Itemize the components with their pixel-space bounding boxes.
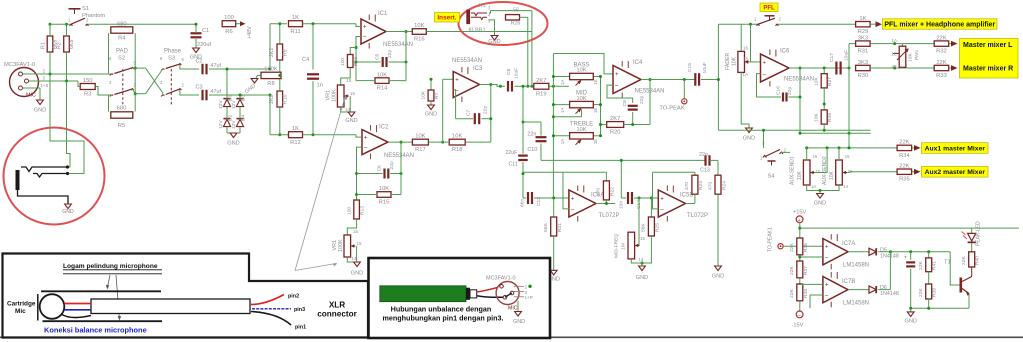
svg-text:2K2: 2K2 [269,48,275,57]
svg-text:100: 100 [347,207,353,215]
svg-text:R1: R1 [41,42,47,49]
svg-text:NE5534AN: NE5534AN [384,153,414,159]
svg-text:R2: R2 [57,42,63,49]
svg-text:14: 14 [345,107,350,112]
svg-text:Phase: Phase [164,49,182,55]
svg-text:TL072P: TL072P [687,213,708,219]
svg-text:C1: C1 [202,28,209,34]
svg-text:66n: 66n [520,199,526,207]
svg-text:Mic: Mic [15,308,26,315]
svg-text:R6: R6 [225,29,232,35]
svg-text:47uf: 47uf [211,63,222,69]
svg-text:+: + [363,25,367,31]
svg-text:MIC: MIC [508,306,518,312]
svg-text:Master mixer L: Master mixer L [963,42,1013,49]
svg-text:1E: 1E [593,108,598,113]
svg-text:–: – [798,313,801,319]
svg-text:1E: 1E [892,52,897,57]
svg-text:IC4: IC4 [633,60,643,66]
svg-text:+: + [660,196,664,202]
svg-text:NE5534AN: NE5534AN [383,42,413,48]
svg-text:+: + [615,72,619,78]
svg-text:15: 15 [640,236,645,241]
svg-text:+15V: +15V [793,210,806,216]
svg-text:470: 470 [684,182,690,190]
svg-text:PAN: PAN [914,50,920,60]
svg-text:R16: R16 [414,37,425,43]
svg-text:680: 680 [117,21,127,27]
svg-text:22K: 22K [789,266,795,275]
svg-text:Aux1 master Mixer: Aux1 master Mixer [925,145,986,152]
svg-text:pin1: pin1 [295,325,306,331]
svg-text:1K: 1K [292,15,299,21]
svg-text:Cartridge: Cartridge [7,301,36,308]
svg-text:TL072P: TL072P [599,213,620,219]
svg-text:10K: 10K [577,127,587,133]
svg-text:MIC: MIC [26,93,36,99]
svg-text:22p: 22p [483,106,489,114]
svg-text:C17: C17 [829,53,835,62]
svg-text:220uf: 220uf [197,42,211,48]
svg-text:10K: 10K [377,72,387,78]
svg-text:R25: R25 [655,223,661,232]
svg-text:NE5534AN: NE5534AN [784,77,814,83]
svg-text:C9: C9 [622,100,628,107]
svg-text:10K: 10K [908,53,914,62]
svg-text:XLR: XLR [329,301,345,310]
svg-text:R37: R37 [803,266,809,275]
svg-text:10K: 10K [379,186,389,192]
svg-text:D2: D2 [228,115,234,121]
svg-text:1E: 1E [593,139,598,144]
svg-text:GND: GND [636,275,648,281]
svg-text:22p: 22p [639,96,645,104]
svg-text:R17: R17 [415,147,426,153]
svg-text:10uF: 10uF [514,68,520,79]
svg-text:R27: R27 [827,77,833,86]
svg-text:C3: C3 [196,85,203,91]
svg-text:R10: R10 [283,94,289,104]
svg-text:R18: R18 [452,147,463,153]
svg-text:PAD: PAD [116,49,129,55]
svg-text:+: + [364,135,368,141]
svg-text:R26: R26 [511,21,521,27]
svg-text:10n: 10n [619,201,625,209]
svg-text:GND: GND [814,201,826,207]
svg-text:pin3: pin3 [294,307,305,313]
svg-text:TO-PEAK1: TO-PEAK1 [768,227,774,252]
svg-text:R22: R22 [610,187,616,196]
svg-text:3K3: 3K3 [858,35,868,41]
svg-text:R32: R32 [936,49,947,55]
svg-text:R8: R8 [267,81,274,87]
svg-text:Koneksi balance microphone: Koneksi balance microphone [44,326,147,335]
svg-text:+: + [763,61,767,67]
svg-text:R3: R3 [84,92,91,98]
svg-text:MC3FAV1-0: MC3FAV1-0 [486,276,516,282]
svg-text:IC3: IC3 [473,66,483,72]
svg-text:Insert.: Insert. [437,15,456,22]
svg-text:14: 14 [843,184,848,189]
svg-text:C4: C4 [302,57,310,63]
svg-text:470: 470 [596,188,602,196]
svg-text:10K: 10K [814,113,820,122]
svg-text:R20: R20 [610,130,621,136]
svg-text:C13: C13 [700,168,710,174]
svg-text:R24: R24 [721,181,727,190]
svg-text:10K: 10K [797,170,803,180]
svg-text:15: 15 [845,154,850,159]
svg-text:Aux2 master Mixer: Aux2 master Mixer [925,169,986,176]
svg-text:R39: R39 [932,288,938,297]
svg-text:R28: R28 [827,113,833,122]
svg-text:+48V: +48V [247,26,253,39]
svg-text:4E: 4E [892,64,897,69]
svg-text:16: 16 [743,46,748,51]
svg-text:R4: R4 [118,35,126,41]
svg-text:R29: R29 [858,29,869,35]
svg-text:KLBR1: KLBR1 [469,28,486,34]
svg-text:56: 56 [513,8,519,14]
svg-text:10K: 10K [415,134,425,140]
svg-text:1A: 1A [892,38,897,43]
svg-text:12V: 12V [218,120,224,129]
svg-text:C15: C15 [687,63,693,72]
svg-text:R35: R35 [899,177,910,183]
svg-text:C10: C10 [527,147,537,153]
svg-text:10K: 10K [829,170,835,180]
svg-text:IC1: IC1 [378,11,388,17]
svg-text:GND: GND [34,108,46,114]
svg-text:100K: 100K [338,239,344,252]
svg-text:LM1458N: LM1458N [843,263,869,269]
svg-text:680: 680 [117,106,127,112]
svg-text:R7: R7 [434,92,440,99]
svg-text:10K: 10K [452,134,462,140]
svg-text:+: + [455,78,459,84]
svg-text:22K: 22K [789,243,795,252]
svg-text:56K: 56K [543,223,549,232]
svg-text:R31: R31 [858,49,869,55]
svg-text:connector: connector [317,310,357,319]
svg-text:R9: R9 [283,49,289,56]
svg-text:D4: D4 [241,115,247,121]
svg-text:1N4148: 1N4148 [880,254,899,260]
svg-text:C6: C6 [377,165,383,172]
svg-text:1A: 1A [811,184,816,189]
svg-text:1N4148: 1N4148 [880,291,899,297]
svg-text:100K: 100K [331,89,337,102]
svg-text:PFL mixer + Headphone amplifie: PFL mixer + Headphone amplifier [884,22,995,29]
svg-text:10K: 10K [577,68,587,74]
svg-text:22p: 22p [787,87,793,95]
svg-text:22p: 22p [387,50,393,58]
svg-text:C5: C5 [375,53,381,60]
svg-text:R13: R13 [353,57,359,66]
svg-text:C7: C7 [466,109,472,116]
svg-text:14: 14 [639,257,644,262]
svg-text:R40: R40 [975,256,981,265]
svg-text:10K: 10K [732,56,738,66]
svg-text:10K: 10K [814,77,820,86]
svg-text:22uF: 22uF [506,150,518,156]
svg-text:+: + [825,245,829,251]
svg-text:R38: R38 [803,289,809,298]
svg-text:S1: S1 [82,6,89,12]
svg-text:IC2: IC2 [379,125,389,131]
svg-text:TO-PEAK: TO-PEAK [659,106,684,112]
svg-text:2K7: 2K7 [610,116,620,122]
svg-text:GND: GND [425,112,437,118]
svg-text:+: + [825,283,829,289]
svg-text:GND: GND [743,136,755,142]
svg-text:100: 100 [224,15,234,21]
svg-text:100K: 100K [264,67,278,73]
svg-text:22K: 22K [899,164,909,170]
svg-text:3: 3 [43,76,46,81]
svg-text:AUX-SEND1: AUX-SEND1 [790,156,796,185]
svg-text:R13: R13 [359,206,365,215]
svg-text:GND: GND [345,118,357,124]
svg-text:IC7B: IC7B [842,279,855,285]
svg-text:1+P: 1+P [525,295,533,300]
svg-text:16: 16 [353,229,358,234]
svg-text:22K: 22K [918,261,924,270]
svg-text:15: 15 [347,78,352,83]
svg-text:pin2: pin2 [288,294,299,300]
svg-text:Hubungan unbalance dengan: Hubungan unbalance dengan [391,305,492,314]
svg-text:1M: 1M [621,243,627,250]
svg-text:+: + [904,256,907,261]
svg-text:C16: C16 [775,86,781,95]
svg-text:GND: GND [62,209,74,215]
svg-text:12V: 12V [218,100,224,109]
svg-text:R5: R5 [118,123,125,129]
svg-text:56K: 56K [641,223,647,232]
svg-text:R41: R41 [932,261,938,270]
svg-text:15: 15 [357,241,362,246]
svg-text:LM1458N: LM1458N [843,301,869,307]
svg-text:1+6: 1+6 [41,83,49,88]
svg-text:2K2: 2K2 [269,95,275,104]
svg-text:Logam pelindung microphone: Logam pelindung microphone [63,263,158,270]
svg-text:R21: R21 [557,223,563,232]
svg-text:10K: 10K [414,23,424,29]
svg-text:22K: 22K [899,140,909,146]
svg-text:22K: 22K [918,288,924,297]
svg-text:3K3: 3K3 [858,60,868,66]
svg-text:GND: GND [488,39,500,45]
svg-text:GND: GND [513,319,525,325]
svg-text:C11: C11 [509,162,518,168]
svg-text:S4: S4 [767,174,775,180]
svg-text:10K: 10K [421,90,427,99]
svg-text:GND: GND [227,141,239,147]
svg-text:R14: R14 [377,86,388,92]
svg-text:D1: D1 [228,95,234,101]
svg-text:GND: GND [351,271,363,277]
svg-text:1A: 1A [743,72,748,77]
svg-text:GND: GND [904,319,916,325]
svg-text:MC3FAV1-0: MC3FAV1-0 [4,62,35,68]
svg-text:10uF: 10uF [702,62,708,73]
svg-text:MID-FREQ: MID-FREQ [614,234,620,258]
svg-text:2: 2 [525,285,528,290]
svg-text:470: 470 [708,182,714,190]
svg-text:PEAK-LED: PEAK-LED [976,221,982,246]
svg-text:16: 16 [813,154,818,159]
svg-text:15: 15 [744,57,749,62]
svg-text:100: 100 [340,58,346,66]
svg-text:1E: 1E [593,80,598,85]
svg-text:22K: 22K [936,60,946,66]
svg-text:C8: C8 [506,68,512,75]
svg-text:1n: 1n [317,83,323,89]
svg-text:R30: R30 [858,73,869,79]
svg-text:10K: 10K [577,96,587,102]
svg-text:C2: C2 [196,59,203,65]
svg-text:15: 15 [816,169,821,174]
svg-text:R34: R34 [899,153,910,159]
svg-text:R12: R12 [290,140,301,146]
svg-text:22K: 22K [936,35,946,41]
svg-text:-15V: -15V [792,323,804,329]
svg-text:22n: 22n [527,132,536,138]
svg-text:FADER: FADER [725,52,731,70]
svg-text:22p: 22p [389,161,395,169]
svg-text:1A: 1A [560,108,565,113]
svg-text:Master mixer R: Master mixer R [963,66,1013,73]
svg-text:6K8: 6K8 [69,40,75,49]
svg-text:1A: 1A [560,80,565,85]
svg-text:+: + [571,196,575,202]
svg-text:2: 2 [43,69,46,74]
svg-text:2K7: 2K7 [536,78,546,84]
svg-text:PFL: PFL [763,5,775,11]
svg-text:R33: R33 [936,73,947,79]
svg-text:R19: R19 [536,91,547,97]
svg-text:15: 15 [350,91,355,96]
svg-text:IC6: IC6 [780,49,790,55]
svg-text:22K: 22K [789,289,795,298]
svg-text:47uf: 47uf [211,89,222,95]
svg-text:NE5534AN: NE5534AN [452,58,482,64]
svg-text:R11: R11 [290,29,300,35]
svg-text:22n: 22n [699,152,708,158]
svg-text:150: 150 [83,78,93,84]
svg-text:GND: GND [712,274,724,280]
svg-text:R23: R23 [698,181,704,190]
svg-text:S3: S3 [168,56,175,62]
svg-text:X1: X1 [479,3,486,9]
svg-text:IC7A: IC7A [842,241,855,247]
svg-text:R15: R15 [379,200,390,206]
svg-text:R36: R36 [803,243,809,252]
svg-text:1K: 1K [859,16,866,22]
svg-text:1A: 1A [560,139,565,144]
svg-text:menghubungkan pin1 dengan pin3: menghubungkan pin1 dengan pin3. [383,314,504,323]
svg-text:S2: S2 [118,56,125,62]
svg-text:22K: 22K [961,256,967,265]
svg-text:1K: 1K [292,126,299,132]
